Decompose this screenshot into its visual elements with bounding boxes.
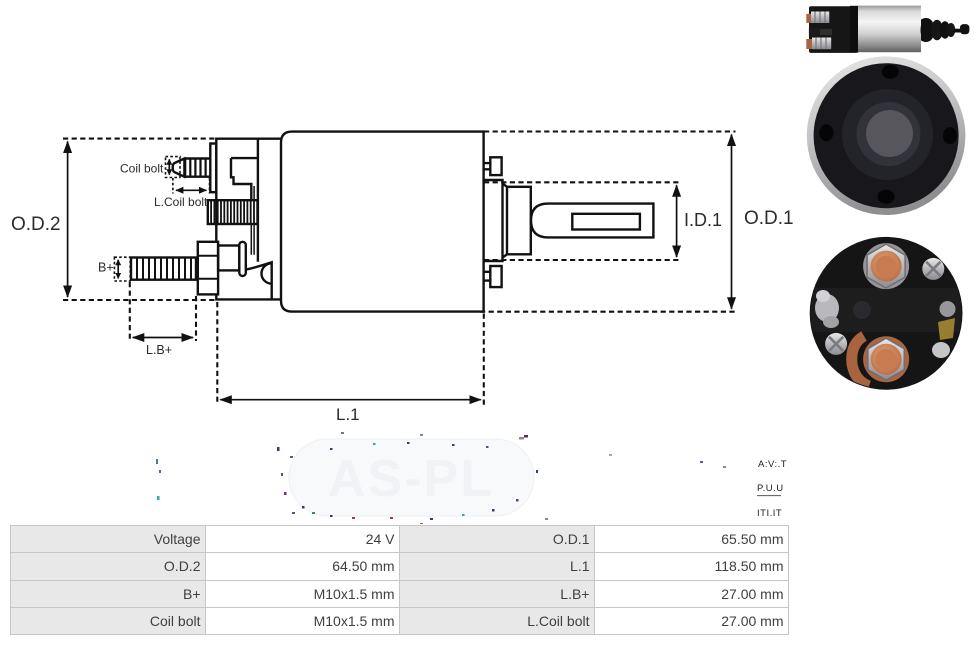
- shaft slot: [572, 214, 640, 230]
- plunger shaft: [531, 204, 653, 238]
- L.B+ left extension: [129, 282, 131, 341]
- end cap mid piece: [507, 187, 531, 255]
- B+ size arrow: [117, 260, 119, 279]
- phillips screw top right: [922, 258, 944, 280]
- cap holes: [882, 65, 899, 79]
- black front section: [809, 6, 858, 53]
- I.D.1 bottom extension: [484, 259, 681, 261]
- phillips screw bottom left: [825, 333, 847, 355]
- coil bolt size arrow: [168, 159, 170, 174]
- dimension arrows: [68, 135, 732, 400]
- watermark stadium: [277, 435, 538, 520]
- B+ terminal block: [218, 246, 239, 271]
- L.B+ arrow: [133, 337, 193, 339]
- spec table: [10, 525, 789, 635]
- svg-text:L.Coil bolt: L.Coil bolt: [154, 195, 208, 209]
- bottom bolt: [806, 39, 813, 49]
- L.1 arrow: [220, 399, 481, 401]
- I.D.1 top extension: [484, 181, 681, 183]
- svg-text:AS-PL: AS-PL: [328, 450, 494, 508]
- coil bolt dim box: [166, 157, 181, 178]
- top stud: [484, 163, 491, 169]
- O.D.1 top extension: [484, 130, 736, 132]
- svg-text:Coil bolt: Coil bolt: [120, 162, 164, 176]
- dimension dashed lines: [63, 132, 737, 406]
- top terminal: [863, 243, 909, 289]
- L.Coil bolt arrow: [176, 189, 207, 191]
- top bolt: [806, 14, 812, 23]
- photo: bottom terminals view: [810, 237, 963, 390]
- bottom stud: [484, 272, 491, 281]
- coil threaded bushing: [208, 200, 258, 224]
- O.D.1 bottom extension: [480, 311, 737, 313]
- cylinder body: [281, 132, 484, 312]
- solder blobs: [815, 294, 839, 322]
- end cap flange: [484, 180, 507, 261]
- coil rod lines: [251, 224, 254, 255]
- coil bolt plate: [210, 144, 216, 193]
- bracket inner notch: [231, 158, 258, 200]
- O.D.2 arrow: [67, 142, 69, 298]
- middle tab: [809, 28, 820, 36]
- O.D.2 bottom extension: [63, 299, 217, 301]
- right hardware: [940, 301, 956, 317]
- svg-text:O.D.1: O.D.1: [744, 208, 794, 229]
- rubber boot: [921, 18, 935, 41]
- svg-text:B+: B+: [98, 261, 114, 275]
- svg-text:L.B+: L.B+: [146, 343, 172, 357]
- O.D.1 arrow: [731, 135, 733, 309]
- watermark specks: [156, 432, 726, 525]
- L.B+ right extension: [195, 296, 197, 341]
- bushing threads: [211, 200, 254, 224]
- svg-text:L.1: L.1: [336, 405, 360, 424]
- L.Coil bolt extensions: [173, 178, 210, 194]
- svg-text:P.U.U: P.U.U: [757, 483, 784, 494]
- B+ dim box: [114, 257, 130, 281]
- B+ bolt threads outline: [131, 258, 196, 280]
- B+ threads: [137, 258, 191, 280]
- contact disc: [239, 242, 246, 276]
- svg-text:I.D.1: I.D.1: [684, 210, 722, 230]
- chrome cylinder: [858, 6, 921, 53]
- O.D.2 top extension: [63, 138, 216, 140]
- coil bolt threads: [185, 159, 205, 177]
- bottom terminal: [863, 336, 909, 382]
- L.1 left extension: [216, 302, 218, 405]
- rubber boot: [246, 262, 272, 299]
- bracket top edge extension: [258, 137, 281, 139]
- I.D.1 arrow: [676, 185, 678, 257]
- coil bolt: [173, 159, 211, 177]
- svg-text:A:V:.T: A:V:.T: [758, 459, 787, 470]
- photo: front cap view: [807, 56, 966, 215]
- copper strap: [852, 336, 869, 386]
- svg-text:ITI.IT: ITI.IT: [757, 508, 782, 519]
- svg-text:O.D.2: O.D.2: [11, 214, 61, 235]
- B+ nut: [198, 242, 218, 295]
- watermark side text: [757, 459, 787, 519]
- photo: solenoid side view: [806, 6, 969, 53]
- plunger rod: [954, 29, 962, 33]
- bracket plate: [216, 139, 281, 300]
- L.1 right extension: [483, 314, 485, 406]
